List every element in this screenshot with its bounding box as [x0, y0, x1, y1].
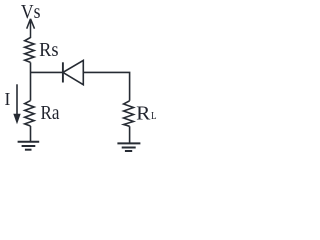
source arrow at Vs — [27, 19, 35, 38]
svg-text:L: L — [151, 111, 157, 122]
wire left rail Rs to Ra — [30, 62, 32, 100]
svg-text:Rs: Rs — [39, 39, 58, 61]
label Rs — [39, 39, 58, 61]
label Ra — [41, 102, 60, 124]
ground right — [117, 143, 140, 151]
node Vs label — [21, 1, 41, 23]
ground left — [18, 142, 40, 150]
resistor Rs — [25, 38, 34, 63]
resistor Ra — [25, 101, 34, 126]
resistor RL — [124, 101, 134, 127]
svg-text:I: I — [5, 89, 11, 109]
wire RL to ground — [129, 126, 131, 143]
label RL — [136, 102, 157, 124]
current arrow I — [13, 84, 20, 124]
label I — [5, 89, 11, 109]
wire junction to diode — [31, 71, 63, 73]
svg-text:R: R — [136, 102, 151, 124]
diode D1 — [63, 60, 83, 84]
wire Ra to ground — [30, 126, 32, 142]
svg-text:Ra: Ra — [41, 102, 60, 124]
wire diode to RL corner — [83, 72, 129, 100]
